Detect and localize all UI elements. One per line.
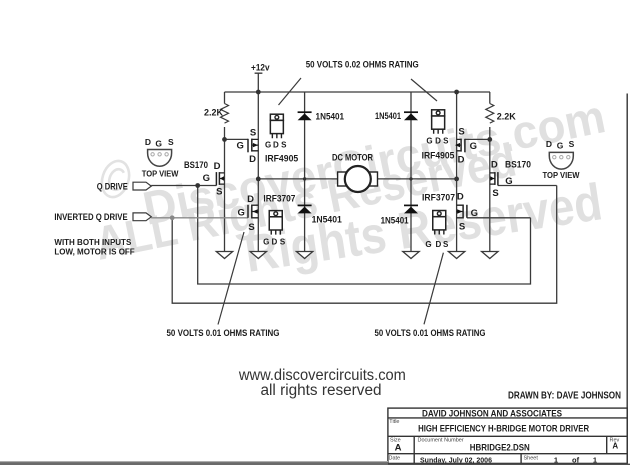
- svg-text:Document Number: Document Number: [418, 438, 464, 444]
- svg-text:D: D: [546, 139, 552, 149]
- svg-text:S: S: [216, 187, 222, 198]
- svg-text:Title: Title: [389, 419, 399, 425]
- svg-text:D: D: [458, 155, 465, 166]
- svg-text:WITH BOTH INPUTS: WITH BOTH INPUTS: [54, 238, 132, 247]
- svg-text:S: S: [281, 140, 287, 149]
- svg-text:D: D: [249, 154, 256, 165]
- svg-text:all rights reserved: all rights reserved: [261, 382, 382, 399]
- svg-text:G: G: [557, 140, 564, 150]
- svg-text:D: D: [435, 137, 441, 146]
- svg-text:IRF4905: IRF4905: [422, 151, 455, 161]
- svg-text:1N5401: 1N5401: [375, 111, 401, 121]
- svg-text:BS170: BS170: [505, 160, 531, 170]
- svg-text:HIGH EFFICIENCY H-BRIDGE MOTOR: HIGH EFFICIENCY H-BRIDGE MOTOR DRIVER: [418, 424, 589, 434]
- svg-text:G: G: [505, 176, 512, 187]
- svg-text:G: G: [238, 208, 245, 219]
- svg-text:A: A: [395, 442, 402, 453]
- svg-text:D: D: [247, 194, 254, 205]
- svg-text:LOW, MOTOR IS OFF: LOW, MOTOR IS OFF: [54, 247, 134, 256]
- svg-text:D: D: [436, 240, 442, 249]
- svg-text:A: A: [612, 441, 618, 450]
- svg-text:G: G: [471, 208, 478, 219]
- svg-text:TOP VIEW: TOP VIEW: [543, 171, 580, 180]
- svg-text:1N5401: 1N5401: [381, 216, 409, 226]
- svg-text:D: D: [145, 137, 151, 147]
- svg-text:Date: Date: [389, 456, 401, 462]
- svg-text:1N5401: 1N5401: [316, 112, 345, 122]
- svg-text:D: D: [491, 160, 498, 171]
- svg-text:S: S: [443, 240, 449, 249]
- svg-text:50 VOLTS 0.01 OHMS RATING: 50 VOLTS 0.01 OHMS RATING: [375, 328, 486, 338]
- svg-text:G: G: [470, 141, 477, 152]
- svg-text:+12v: +12v: [251, 63, 270, 74]
- svg-text:D: D: [273, 140, 279, 149]
- svg-text:1: 1: [554, 455, 558, 464]
- svg-text:S: S: [569, 139, 575, 149]
- svg-text:S: S: [280, 238, 286, 247]
- svg-text:1: 1: [593, 455, 597, 464]
- svg-text:50 VOLTS 0.01 OHMS RATING: 50 VOLTS 0.01 OHMS RATING: [167, 328, 280, 338]
- svg-text:S: S: [248, 222, 254, 233]
- svg-text:DAVID JOHNSON AND ASSOCIATES: DAVID JOHNSON AND ASSOCIATES: [422, 408, 562, 418]
- svg-text:BS170: BS170: [184, 160, 208, 170]
- svg-text:Sheet: Sheet: [524, 456, 539, 462]
- svg-text:S: S: [443, 137, 449, 146]
- svg-text:G: G: [265, 140, 271, 149]
- svg-text:50 VOLTS 0.02 OHMS RATING: 50 VOLTS 0.02 OHMS RATING: [306, 60, 419, 70]
- svg-text:G: G: [426, 137, 432, 146]
- svg-text:G: G: [203, 173, 210, 184]
- svg-text:DRAWN BY: DAVE JOHNSON: DRAWN BY: DAVE JOHNSON: [508, 391, 621, 402]
- svg-text:G: G: [155, 138, 162, 148]
- svg-text:D: D: [457, 192, 464, 203]
- svg-text:S: S: [492, 188, 498, 199]
- svg-text:TOP VIEW: TOP VIEW: [142, 169, 179, 178]
- svg-text:S: S: [459, 222, 465, 233]
- svg-text:of: of: [572, 455, 580, 464]
- svg-text:Q DRIVE: Q DRIVE: [97, 181, 128, 191]
- svg-text:S: S: [250, 128, 256, 139]
- svg-text:G: G: [263, 238, 269, 247]
- svg-text:2.2K: 2.2K: [497, 112, 517, 122]
- svg-text:HBRIDGE2.DSN: HBRIDGE2.DSN: [470, 442, 530, 453]
- svg-text:G: G: [425, 240, 431, 249]
- svg-text:DC MOTOR: DC MOTOR: [332, 152, 373, 162]
- svg-text:1N5401: 1N5401: [312, 215, 342, 225]
- svg-text:Sunday, July 02, 2006: Sunday, July 02, 2006: [420, 455, 492, 464]
- svg-text:IRF4905: IRF4905: [265, 153, 298, 163]
- svg-text:S: S: [168, 137, 174, 147]
- svg-text:D: D: [214, 161, 221, 172]
- svg-text:IRF3707: IRF3707: [422, 193, 455, 203]
- svg-text:INVERTED Q DRIVE: INVERTED Q DRIVE: [54, 212, 127, 222]
- svg-text:G: G: [237, 140, 244, 151]
- svg-text:S: S: [458, 127, 464, 138]
- svg-text:D: D: [272, 238, 278, 247]
- svg-text:IRF3707: IRF3707: [263, 193, 295, 203]
- svg-text:2.2K: 2.2K: [204, 107, 224, 117]
